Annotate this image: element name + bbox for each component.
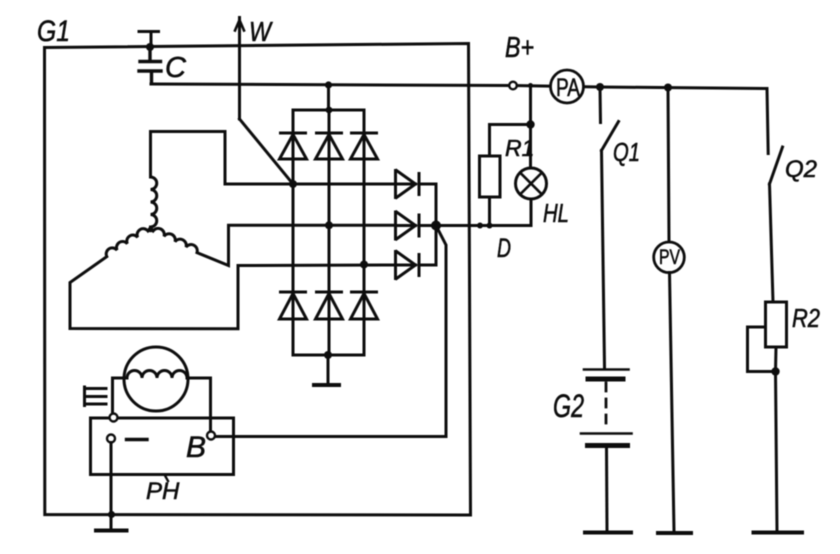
diode VD6 bottom bbox=[351, 292, 378, 319]
field diode VD8 bbox=[396, 212, 437, 239]
ground (battery) bbox=[585, 531, 631, 535]
accent tick over PH bbox=[166, 477, 169, 482]
node: case ground junction bbox=[108, 511, 115, 518]
rectifier top bus bbox=[293, 109, 364, 112]
stator winding phase 2 (left coil to bottom line) bbox=[70, 229, 396, 329]
wire: rectifier ground stem bbox=[327, 355, 330, 383]
svg-text:PA: PA bbox=[556, 74, 580, 102]
wire: PV to ground bbox=[670, 273, 675, 532]
node: Q1 branch junction bbox=[596, 83, 604, 91]
node: R1 stem junction bbox=[487, 223, 493, 229]
terminal W lead bbox=[235, 18, 244, 120]
wire: R1/HL branch from B+ bus bbox=[490, 85, 531, 156]
wire: Q2 to R2 bbox=[770, 184, 774, 302]
svg-text:B+: B+ bbox=[505, 32, 534, 64]
capacitor C top T-terminal bbox=[139, 32, 159, 46]
node D bbox=[431, 221, 441, 231]
ground (PV) bbox=[658, 531, 691, 535]
wiper of R2 bbox=[748, 327, 776, 372]
field diode VD9 bbox=[396, 252, 437, 279]
svg-text:G1: G1 bbox=[37, 15, 70, 48]
switch Q1 bbox=[600, 87, 619, 151]
ground (R2) bbox=[754, 531, 803, 535]
node: PV branch junction bbox=[664, 84, 672, 92]
wire: rotor left lead to Ш bbox=[113, 378, 128, 413]
wire: diagonal from node D to regulator B wire bbox=[215, 226, 446, 437]
svg-text:G2: G2 bbox=[553, 388, 584, 424]
node: riser bottom junction bbox=[326, 107, 333, 114]
stator winding phase 3 (right coil to middle line) bbox=[153, 225, 396, 265]
ground (regulator) bbox=[96, 529, 127, 533]
wire: field diode bus bbox=[435, 184, 438, 265]
rectifier column 3 bbox=[363, 110, 366, 355]
stator winding phase 1 (vertical coil) bbox=[151, 132, 396, 228]
wire: D output to lamp branch bbox=[436, 224, 531, 227]
lamp HL bbox=[516, 125, 547, 226]
svg-text:Q1: Q1 bbox=[613, 137, 640, 167]
terminal minus (open circle) bbox=[107, 435, 115, 443]
rectifier bottom bus bbox=[293, 354, 364, 357]
wire: B+ bus from capacitor to Q2 corner bbox=[151, 84, 768, 154]
wire: riser from B+ bus to rectifier bbox=[327, 85, 330, 110]
rotor coil bbox=[127, 371, 187, 379]
diode VD4 bottom bbox=[280, 292, 307, 319]
wire: rotor right lead to B bbox=[187, 378, 211, 431]
diode VD2 top bbox=[316, 133, 343, 159]
rotor field winding (circle) bbox=[124, 347, 188, 411]
node: bottom bus junction bbox=[324, 351, 332, 359]
switch Q2 bbox=[770, 147, 783, 184]
node: R2 wiper junction bbox=[771, 367, 779, 375]
svg-text:РН: РН bbox=[146, 478, 180, 505]
svg-text:W: W bbox=[249, 16, 273, 47]
svg-text:PV: PV bbox=[659, 246, 680, 269]
label Ш bbox=[85, 387, 107, 406]
generator G1 enclosure box bbox=[45, 44, 471, 516]
svg-text:D: D bbox=[497, 233, 511, 263]
regulator PH box bbox=[91, 418, 234, 475]
resistor R2 (adjustable) bbox=[766, 302, 787, 347]
terminal B+ (open circle) bbox=[509, 82, 517, 90]
field diode VD7 bbox=[396, 171, 437, 198]
diode VD1 top bbox=[280, 133, 307, 159]
node: riser top junction bbox=[325, 81, 332, 88]
node: phase B junction bbox=[325, 221, 333, 229]
svg-text:B: B bbox=[186, 431, 206, 464]
wire: R2 bottom stem bbox=[776, 347, 778, 531]
wire: W diagonal to phase node bbox=[240, 119, 294, 184]
capacitor C bbox=[139, 47, 161, 84]
node: phase C junction bbox=[360, 261, 368, 269]
svg-text:C: C bbox=[165, 52, 187, 84]
stator star point bbox=[148, 227, 154, 233]
terminal B of regulator (open circle) bbox=[207, 432, 215, 440]
node: phase A junction bbox=[289, 180, 297, 188]
diode VD5 bottom bbox=[316, 292, 343, 319]
rectifier column 2 bbox=[328, 110, 331, 355]
wire: R1 bottom stem bbox=[488, 197, 491, 226]
svg-text:HL: HL bbox=[543, 198, 569, 228]
rectifier column 1 bbox=[292, 110, 295, 355]
node: capacitor junction on case bbox=[146, 43, 154, 51]
diode VD3 top bbox=[351, 133, 378, 159]
terminal Ш (open circle) bbox=[110, 414, 118, 422]
svg-text:R2: R2 bbox=[792, 303, 820, 333]
node: lamp branch tap bbox=[528, 83, 533, 88]
resistor R1 bbox=[480, 156, 501, 197]
wire: minus terminal to ground bbox=[110, 443, 113, 530]
battery G2 bbox=[581, 370, 632, 531]
wire: PV branch bbox=[668, 88, 669, 243]
wire: Q1 to battery bbox=[602, 151, 605, 368]
ground (rectifier) bbox=[314, 383, 339, 387]
svg-text:Q2: Q2 bbox=[785, 156, 817, 183]
node: D terminal point bbox=[477, 223, 483, 229]
ammeter PA bbox=[551, 70, 584, 103]
voltmeter PV bbox=[654, 242, 685, 273]
node: R1/HL split junction bbox=[526, 120, 534, 128]
minus sign bbox=[127, 438, 148, 441]
